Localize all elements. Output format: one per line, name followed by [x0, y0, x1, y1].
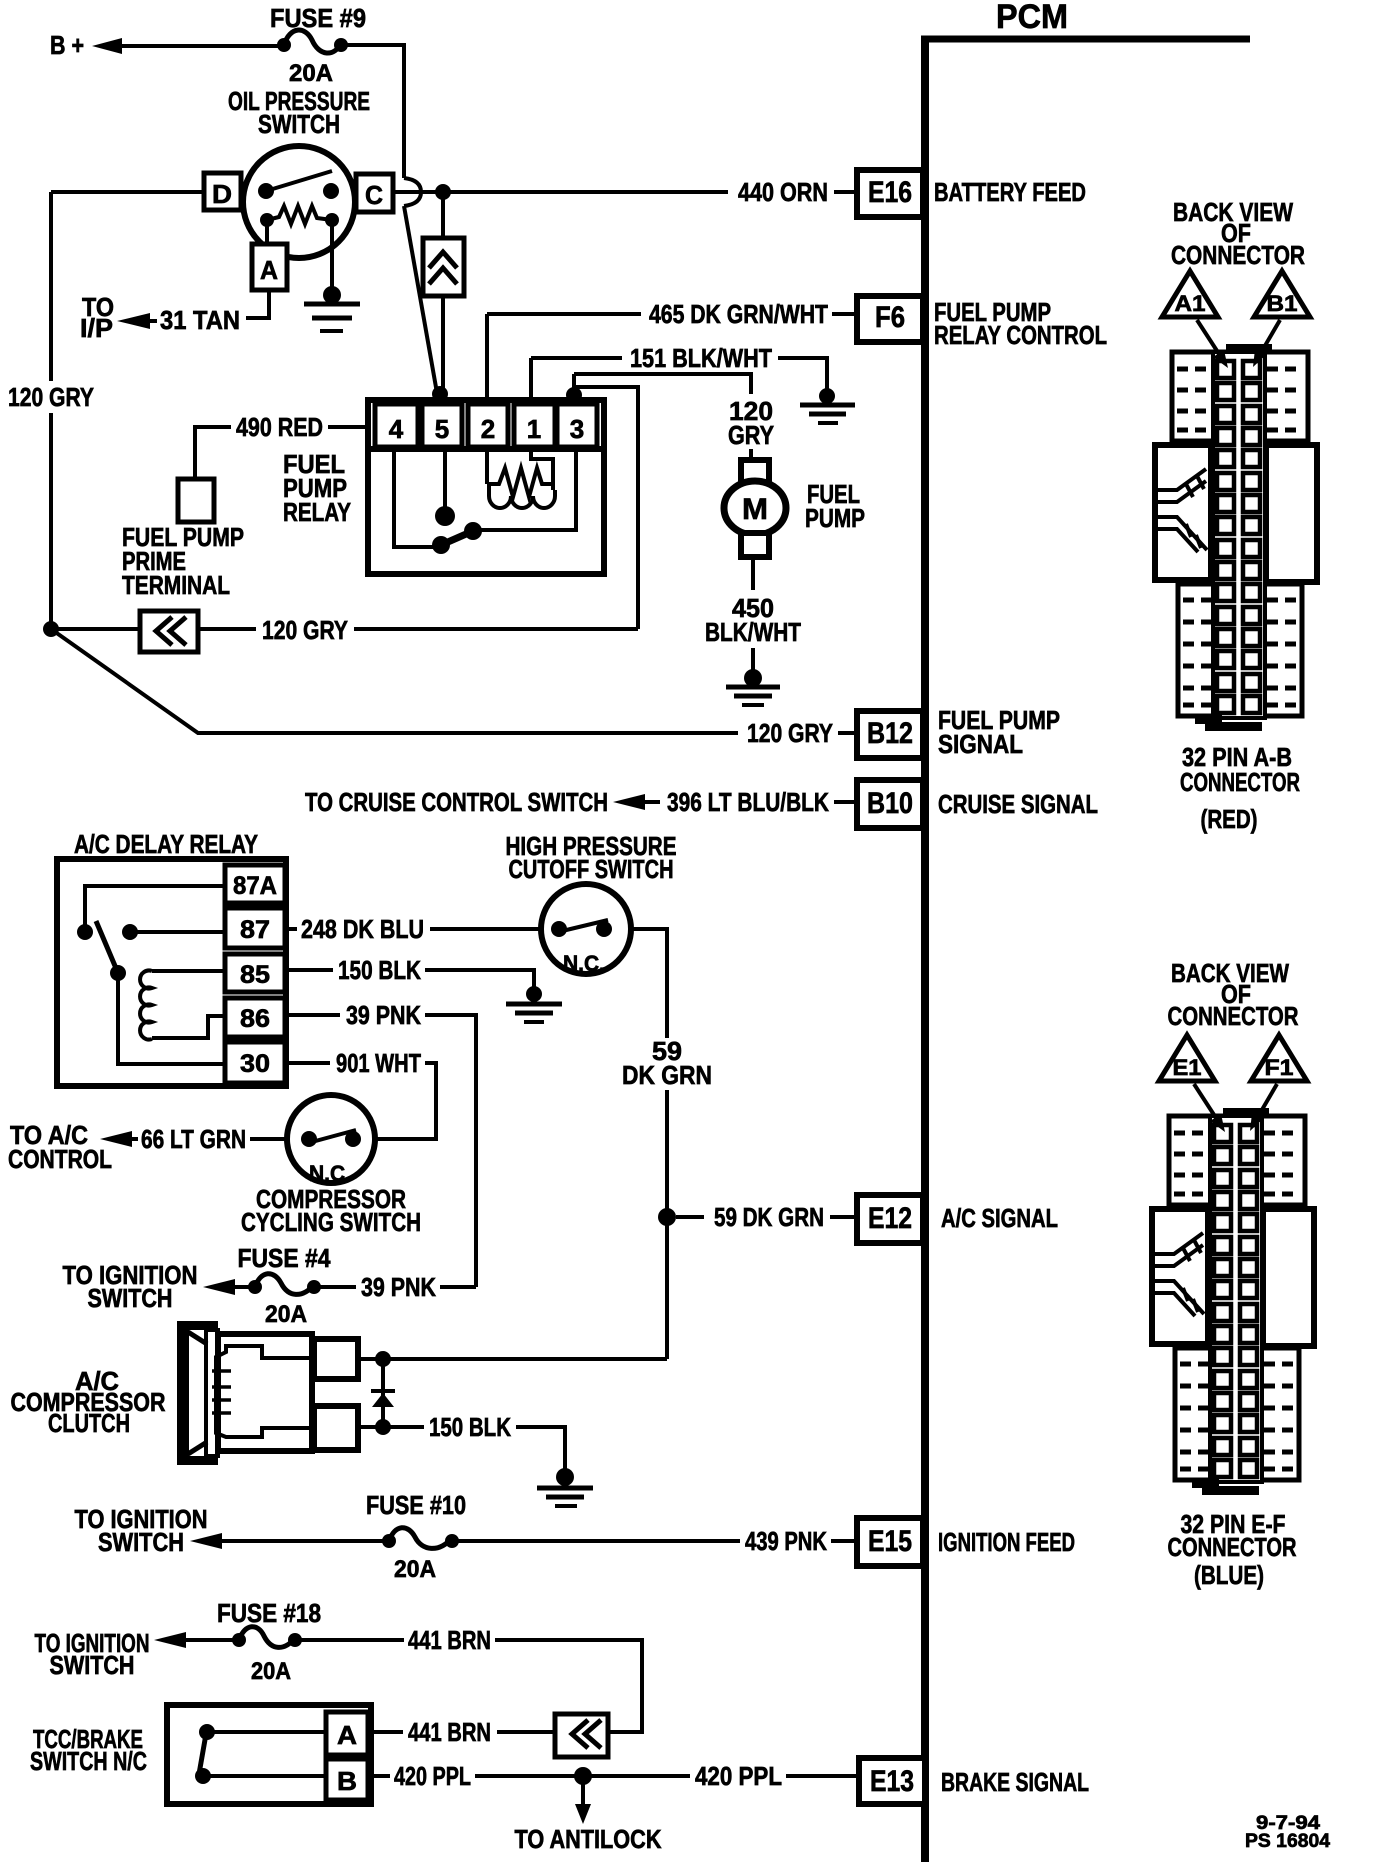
- svg-text:CONNECTOR: CONNECTOR: [1168, 1532, 1297, 1562]
- svg-text:E13: E13: [870, 1765, 914, 1798]
- svg-text:E16: E16: [868, 176, 912, 209]
- svg-text:85: 85: [240, 961, 270, 989]
- svg-text:248 DK BLU: 248 DK BLU: [301, 914, 424, 944]
- svg-text:N.C.: N.C.: [309, 1161, 351, 1186]
- svg-text:FUSE #9: FUSE #9: [270, 3, 366, 33]
- svg-text:(BLUE): (BLUE): [1194, 1560, 1264, 1590]
- svg-text:SIGNAL: SIGNAL: [938, 729, 1023, 759]
- svg-text:B: B: [337, 1766, 357, 1796]
- svg-text:C: C: [365, 180, 383, 210]
- svg-text:N.C.: N.C.: [563, 951, 605, 976]
- svg-text:20A: 20A: [394, 1556, 436, 1583]
- svg-text:150 BLK: 150 BLK: [429, 1412, 511, 1442]
- svg-text:RELAY: RELAY: [283, 497, 351, 527]
- svg-text:66 LT GRN: 66 LT GRN: [141, 1124, 246, 1154]
- svg-text:TO CRUISE CONTROL SWITCH: TO CRUISE CONTROL SWITCH: [305, 787, 608, 817]
- svg-text:BATTERY FEED: BATTERY FEED: [934, 177, 1086, 207]
- svg-text:5: 5: [435, 414, 449, 444]
- svg-text:TERMINAL: TERMINAL: [122, 570, 230, 600]
- svg-text:439 PNK: 439 PNK: [745, 1526, 827, 1556]
- svg-text:31 TAN: 31 TAN: [160, 305, 240, 335]
- svg-text:151 BLK/WHT: 151 BLK/WHT: [630, 343, 772, 373]
- svg-text:441 BRN: 441 BRN: [408, 1717, 491, 1747]
- svg-text:CONNECTOR: CONNECTOR: [1180, 767, 1300, 797]
- svg-text:PUMP: PUMP: [805, 503, 865, 533]
- svg-text:420 PPL: 420 PPL: [695, 1761, 782, 1791]
- svg-text:E12: E12: [868, 1202, 912, 1235]
- svg-text:I/P: I/P: [80, 313, 113, 343]
- svg-text:3: 3: [570, 414, 584, 444]
- svg-text:150 BLK: 150 BLK: [338, 955, 421, 985]
- svg-text:GRY: GRY: [728, 420, 774, 450]
- svg-text:CYCLING SWITCH: CYCLING SWITCH: [241, 1207, 421, 1237]
- svg-text:M: M: [742, 493, 768, 526]
- svg-text:396 LT BLU/BLK: 396 LT BLU/BLK: [667, 787, 829, 817]
- svg-text:120 GRY: 120 GRY: [747, 718, 833, 748]
- svg-text:E15: E15: [868, 1525, 912, 1558]
- svg-text:1: 1: [527, 414, 541, 444]
- svg-text:RELAY CONTROL: RELAY CONTROL: [934, 320, 1107, 350]
- svg-text:87A: 87A: [233, 872, 277, 900]
- svg-text:87: 87: [240, 916, 270, 944]
- svg-text:PCM: PCM: [996, 0, 1068, 36]
- svg-text:A1: A1: [1175, 291, 1206, 316]
- svg-text:2: 2: [481, 414, 495, 444]
- svg-text:A/C DELAY RELAY: A/C DELAY RELAY: [74, 829, 258, 859]
- svg-text:39 PNK: 39 PNK: [346, 1000, 421, 1030]
- svg-text:DK GRN: DK GRN: [622, 1060, 712, 1090]
- svg-text:420 PPL: 420 PPL: [394, 1761, 471, 1791]
- svg-text:IGNITION FEED: IGNITION FEED: [938, 1527, 1075, 1557]
- svg-text:D: D: [212, 179, 232, 209]
- svg-text:4: 4: [389, 414, 404, 444]
- svg-text:A: A: [337, 1720, 357, 1750]
- svg-text:SWITCH: SWITCH: [50, 1650, 135, 1680]
- svg-text:B1: B1: [1267, 291, 1298, 316]
- svg-text:20A: 20A: [265, 1301, 307, 1328]
- svg-text:TO ANTILOCK: TO ANTILOCK: [515, 1824, 662, 1854]
- svg-text:B12: B12: [867, 717, 913, 750]
- svg-text:E1: E1: [1173, 1055, 1202, 1080]
- svg-text:30: 30: [240, 1050, 270, 1078]
- svg-text:490 RED: 490 RED: [236, 412, 323, 442]
- svg-text:CRUISE SIGNAL: CRUISE SIGNAL: [938, 789, 1098, 819]
- svg-text:120 GRY: 120 GRY: [262, 615, 348, 645]
- svg-text:SWITCH N/C: SWITCH N/C: [30, 1746, 147, 1776]
- svg-text:86: 86: [240, 1005, 270, 1033]
- svg-text:BRAKE SIGNAL: BRAKE SIGNAL: [941, 1767, 1089, 1797]
- svg-text:59 DK GRN: 59 DK GRN: [714, 1202, 824, 1232]
- svg-text:F1: F1: [1265, 1055, 1294, 1080]
- svg-text:SWITCH: SWITCH: [98, 1527, 184, 1557]
- svg-text:PS 16804: PS 16804: [1245, 1831, 1330, 1852]
- svg-text:441 BRN: 441 BRN: [408, 1625, 491, 1655]
- svg-text:39 PNK: 39 PNK: [361, 1272, 436, 1302]
- svg-text:CUTOFF SWITCH: CUTOFF SWITCH: [509, 854, 674, 884]
- svg-text:B +: B +: [50, 30, 84, 60]
- svg-text:440 ORN: 440 ORN: [738, 177, 828, 207]
- svg-text:SWITCH: SWITCH: [88, 1283, 173, 1313]
- svg-text:B10: B10: [867, 787, 913, 820]
- svg-text:A: A: [260, 255, 278, 285]
- svg-text:CONTROL: CONTROL: [8, 1144, 112, 1174]
- svg-text:FUSE #10: FUSE #10: [366, 1490, 466, 1520]
- svg-text:901 WHT: 901 WHT: [336, 1048, 421, 1078]
- svg-text:SWITCH: SWITCH: [258, 109, 340, 139]
- svg-text:FUSE #4: FUSE #4: [238, 1243, 331, 1273]
- svg-text:(RED): (RED): [1201, 804, 1258, 834]
- svg-text:CONNECTOR: CONNECTOR: [1168, 1001, 1299, 1031]
- svg-text:BLK/WHT: BLK/WHT: [705, 617, 801, 647]
- svg-text:A/C SIGNAL: A/C SIGNAL: [941, 1203, 1058, 1233]
- svg-text:F6: F6: [875, 301, 905, 334]
- svg-text:465 DK GRN/WHT: 465 DK GRN/WHT: [649, 299, 828, 329]
- svg-text:20A: 20A: [289, 60, 333, 87]
- svg-text:CLUTCH: CLUTCH: [48, 1408, 130, 1438]
- svg-text:20A: 20A: [251, 1658, 291, 1685]
- svg-text:CONNECTOR: CONNECTOR: [1171, 240, 1305, 270]
- svg-text:120 GRY: 120 GRY: [8, 382, 94, 412]
- svg-text:FUSE #18: FUSE #18: [217, 1598, 321, 1628]
